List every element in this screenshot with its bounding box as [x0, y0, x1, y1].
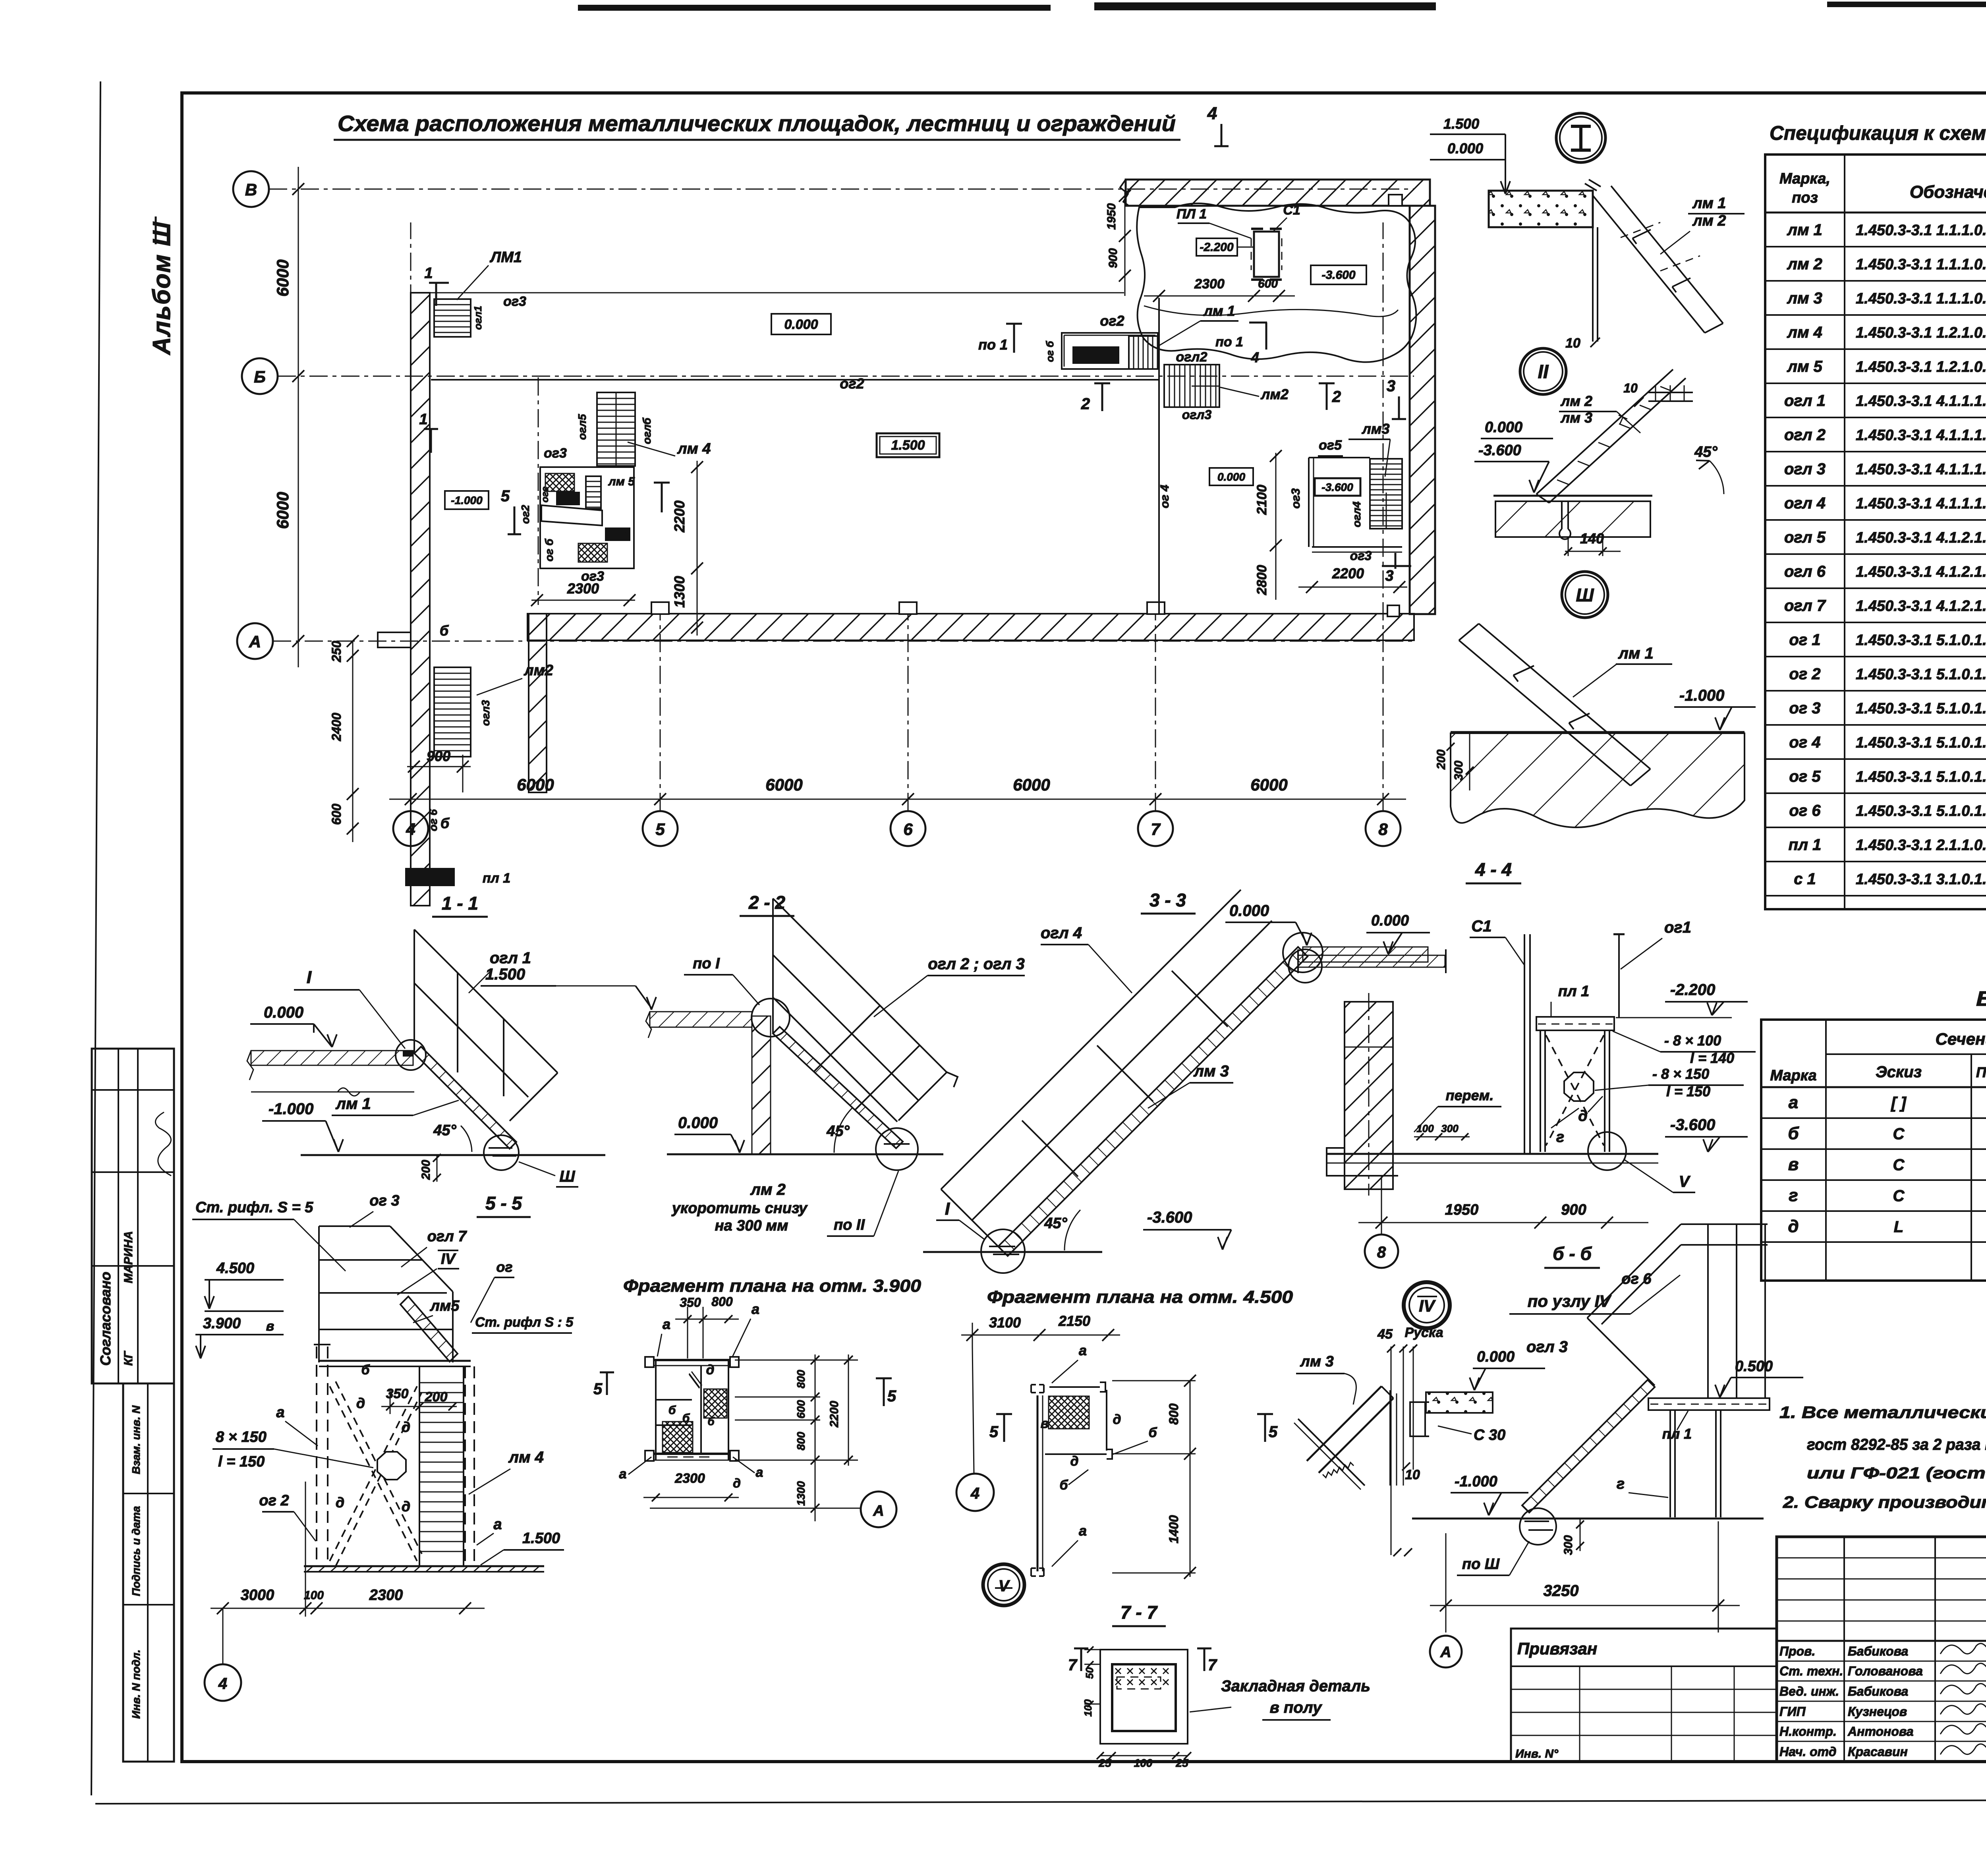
б-б axis 8 circle: [1365, 1235, 1398, 1268]
1-1 stair ЛМ1 tread band: [414, 1047, 516, 1149]
ЛМ3 detail stringers: [1307, 1386, 1381, 1461]
svg-text:350: 350: [680, 1295, 701, 1310]
svg-text:Ш: Ш: [559, 1168, 575, 1185]
left stamp upper block: [92, 1049, 174, 1383]
node IV C30 channel: [1410, 1402, 1429, 1436]
svg-text:или ГФ-021 (гост 25129-82): или ГФ-021 (гост 25129-82): [1807, 1464, 1986, 1482]
black level tag 1.500 lower: [405, 868, 455, 886]
svg-text:огл2: огл2: [1176, 350, 1207, 365]
svg-text:лм 5: лм 5: [608, 475, 635, 488]
svg-text:1.450.3-3.1 5.1.0.1.0: 1.450.3-3.1 5.1.0.1.0: [1856, 803, 1986, 819]
svg-text:по I: по I: [693, 955, 720, 972]
svg-text:0.000: 0.000: [1447, 140, 1483, 156]
svg-text:I: I: [307, 968, 312, 987]
svg-text:-1.000: -1.000: [1081, 350, 1111, 361]
svg-text:по II: по II: [834, 1217, 865, 1233]
svg-text:д: д: [356, 1395, 365, 1411]
node II anchor bolt: [1561, 501, 1563, 529]
fragment1 plan outline: [655, 1360, 657, 1460]
svg-text:-3.600: -3.600: [1670, 1116, 1715, 1134]
svg-text:1.450.3-3.1 1.1.1.0.0 - 07: 1.450.3-3.1 1.1.1.0.0 - 07: [1856, 256, 1986, 273]
left wall axis 4: [411, 293, 430, 906]
svg-text:б - б: б - б: [1553, 1243, 1592, 1264]
svg-text:1.450.3-3.1 3.1.0.1.0-01: 1.450.3-3.1 3.1.0.1.0-01: [1856, 871, 1986, 888]
fragment1 right dim 800 600 800: [815, 1354, 816, 1521]
cloud inner wave: [1144, 306, 1398, 317]
svg-text:огл1: огл1: [472, 306, 484, 330]
svg-text:4.500: 4.500: [216, 1260, 254, 1277]
ЛМ3 detail cross bar: [1298, 1419, 1365, 1486]
б-б dim line 1950 900: [1358, 1222, 1648, 1223]
5-5 dim line 3000 100 2300: [211, 1608, 485, 1609]
svg-text:лм 1: лм 1: [1692, 195, 1726, 212]
svg-text:а: а: [619, 1466, 627, 1482]
svg-text:-3.600: -3.600: [1321, 481, 1353, 493]
stairwell room outline: [540, 467, 634, 568]
б-б ОГ1 post: [1618, 933, 1620, 1018]
wall column axis 6: [899, 602, 917, 614]
svg-text:1300: 1300: [795, 1481, 807, 1506]
svg-text:1 - 1: 1 - 1: [442, 893, 478, 914]
node II top platform bit: [1648, 392, 1693, 393]
svg-text:Фрагмент плана на отм. 3.900: Фрагмент плана на отм. 3.900: [623, 1276, 922, 1296]
stair ОГЛ2 plan: [1164, 365, 1219, 407]
svg-text:лм3: лм3: [1361, 421, 1389, 437]
svg-text:50: 50: [1084, 1667, 1095, 1679]
svg-text:ог 4: ог 4: [1789, 734, 1820, 751]
title block привязан part: [1511, 1629, 1777, 1762]
svg-text:ог 6: ог 6: [427, 809, 439, 831]
svg-text:огл 4: огл 4: [1784, 495, 1826, 512]
svg-text:Эскиз: Эскиз: [1876, 1063, 1922, 1081]
svg-text:Инв. N подл.: Инв. N подл.: [130, 1650, 142, 1719]
node II treads: [1557, 480, 1569, 485]
svg-text:1. Все металлические констру: 1. Все металлические конструкции окрасит…: [1779, 1403, 1986, 1422]
svg-text:-1.000: -1.000: [1455, 1473, 1497, 1490]
svg-text:8: 8: [1377, 1244, 1386, 1261]
svg-text:II: II: [1538, 361, 1549, 383]
5-5 ladder ЛМ4: [419, 1366, 420, 1566]
svg-text:Привязан: Привязан: [1517, 1639, 1597, 1658]
svg-text:100: 100: [1134, 1757, 1153, 1769]
wall column axis 5: [651, 602, 669, 614]
svg-text:Марка,: Марка,: [1779, 170, 1830, 187]
svg-text:600: 600: [329, 804, 344, 825]
left stamp signature: [155, 1112, 171, 1176]
5-5 X brace 1: [330, 1386, 417, 1561]
svg-text:4: 4: [1207, 104, 1217, 123]
svg-text:лм 1: лм 1: [1618, 645, 1654, 662]
svg-text:огл 3: огл 3: [1526, 1338, 1568, 1356]
б-б slab strip left: [1298, 955, 1445, 967]
svg-text:ог б: ог б: [543, 539, 555, 562]
node V circle symbol: [983, 1564, 1024, 1606]
svg-text:1.450.3-3.1 5.1.0.1.0 - 11: 1.450.3-3.1 5.1.0.1.0 - 11: [1856, 734, 1986, 751]
svg-text:г: г: [1617, 1476, 1625, 1492]
wall corner piece axis А/4 plan: [378, 632, 411, 647]
node II weld ticks: [1619, 415, 1627, 424]
svg-text:1.500: 1.500: [522, 1530, 560, 1547]
axis circle 6: [891, 811, 925, 846]
svg-text:2300: 2300: [567, 580, 599, 597]
framed level 1.500 main floor: [877, 433, 939, 457]
svg-text:-3.600: -3.600: [1321, 269, 1355, 282]
svg-text:Н.контр.: Н.контр.: [1779, 1724, 1837, 1739]
node I channel symbols: [1632, 230, 1651, 244]
svg-text:лм2: лм2: [1260, 386, 1289, 402]
svg-text:6000: 6000: [1250, 775, 1287, 794]
axis circle В: [233, 171, 269, 207]
axis line 4: [410, 222, 411, 811]
node IV left slab: [1426, 1392, 1493, 1413]
svg-text:1.450.3-3.1 5.1.0.1.0 - 08: 1.450.3-3.1 5.1.0.1.0 - 08: [1856, 666, 1986, 683]
svg-text:Закладная деталь: Закладная деталь: [1221, 1677, 1370, 1695]
stair ЛМ4 plan: [597, 392, 635, 466]
axis line А: [273, 641, 1412, 642]
svg-text:8 × 150: 8 × 150: [216, 1429, 267, 1445]
svg-text:25: 25: [1175, 1757, 1188, 1769]
svg-text:Нач. отд: Нач. отд: [1779, 1745, 1836, 1759]
svg-text:1.450.3-3.1 1.1.1.0.0 - 16: 1.450.3-3.1 1.1.1.0.0 - 16: [1856, 290, 1986, 307]
interior wall below slab: [529, 614, 547, 792]
scan smudge top 1: [578, 5, 1051, 11]
node I stair stringers: [1593, 195, 1705, 333]
svg-text:С1: С1: [1471, 918, 1491, 935]
svg-text:8: 8: [1378, 820, 1388, 839]
svg-text:лм 3: лм 3: [1787, 290, 1822, 307]
node IV railing corner: [1681, 1223, 1768, 1225]
fragment1 bottom dim 2300: [643, 1497, 739, 1498]
б-б X brace: [1546, 1035, 1604, 1146]
svg-text:4: 4: [218, 1675, 227, 1692]
svg-text:лм 4: лм 4: [1787, 324, 1822, 341]
svg-text:ог 6: ог 6: [1621, 1271, 1652, 1287]
svg-text:С1: С1: [1283, 203, 1300, 218]
svg-text:а: а: [1079, 1522, 1087, 1539]
stair ЛМ3 plan: [1370, 459, 1402, 529]
svg-text:ог3: ог3: [544, 446, 567, 461]
svg-text:гост 8292-85 за 2 раза по г: гост 8292-85 за 2 раза по грунтовке ГФ-0…: [1807, 1436, 1986, 1453]
framed level 0.000 main floor: [771, 314, 831, 334]
svg-text:3.900: 3.900: [203, 1315, 241, 1332]
svg-text:300: 300: [1562, 1535, 1575, 1555]
svg-text:ог3: ог3: [1350, 549, 1372, 563]
svg-text:5 - 5: 5 - 5: [485, 1193, 522, 1213]
svg-text:1950: 1950: [1105, 203, 1118, 230]
title block personnel rows: [1777, 1661, 1986, 1662]
node IV ground line: [1412, 1518, 1764, 1520]
svg-text:б: б: [1148, 1425, 1157, 1440]
axis line Б: [278, 376, 1414, 377]
svg-text:1950: 1950: [1445, 1202, 1479, 1218]
svg-text:Ст. рифл. S = 5: Ст. рифл. S = 5: [195, 1199, 313, 1216]
node III ground surface: [1451, 731, 1745, 733]
svg-text:- 8 × 100: - 8 × 100: [1664, 1032, 1721, 1049]
svg-text:1.500: 1.500: [607, 529, 629, 539]
svg-text:3 - 3: 3 - 3: [1149, 890, 1186, 910]
svg-text:0.000: 0.000: [1217, 471, 1245, 483]
node I circle: [1556, 113, 1605, 162]
svg-text:б: б: [707, 1415, 715, 1428]
svg-text:пл 1: пл 1: [1558, 983, 1590, 1000]
svg-text:оглб: оглб: [641, 417, 653, 444]
svg-text:-3.600: -3.600: [1147, 1209, 1192, 1226]
svg-text:3: 3: [1385, 568, 1393, 584]
svg-text:6000: 6000: [765, 775, 802, 794]
axis line В: [269, 189, 1414, 190]
node IV circle: [1404, 1282, 1450, 1328]
svg-text:45°: 45°: [1694, 444, 1717, 460]
svg-text:укоротить снизу: укоротить снизу: [671, 1200, 808, 1217]
svg-text:600: 600: [1258, 277, 1278, 290]
fragment2 crosshatch: [1049, 1396, 1089, 1429]
wall notch square: [1389, 195, 1402, 206]
dimension 2100 2800 rotated: [1275, 453, 1277, 600]
svg-text:1.500: 1.500: [1443, 116, 1479, 132]
ladder in platform: [1129, 336, 1158, 369]
fragment1 dim 2200: [848, 1354, 849, 1466]
svg-text:1: 1: [424, 265, 433, 282]
svg-text:огл 2: огл 2: [1784, 426, 1826, 444]
svg-text:Б: Б: [254, 367, 266, 386]
svg-text:10: 10: [1405, 1467, 1420, 1482]
svg-text:Фрагмент плана на отм. 4.50: Фрагмент плана на отм. 4.500: [987, 1287, 1293, 1307]
node I weld mark: [1585, 184, 1597, 191]
upper floor edge line: [430, 292, 1124, 294]
5-5 gusset: [377, 1452, 406, 1480]
3-3 bottom node circle: [981, 1229, 1025, 1273]
node II circle: [1520, 348, 1566, 394]
svg-text:огл4: огл4: [1350, 501, 1363, 527]
node I slab: [1489, 191, 1593, 227]
svg-text:Марка: Марка: [1770, 1067, 1816, 1084]
svg-text:900: 900: [1561, 1202, 1586, 1218]
left stamp lower block: [123, 1383, 174, 1762]
svg-text:4: 4: [970, 1485, 979, 1502]
svg-text:поз: поз: [1792, 189, 1818, 206]
1-1 ground line: [301, 1154, 605, 1156]
svg-text:лм 4: лм 4: [508, 1449, 544, 1466]
svg-text:800: 800: [795, 1370, 807, 1388]
svg-text:лм5: лм5: [430, 1298, 460, 1314]
node III soil hatch: [1451, 733, 1745, 827]
axis line 6: [908, 614, 909, 811]
svg-text:б: б: [682, 1412, 690, 1425]
svg-text:В: В: [245, 180, 257, 199]
б-б node IV ref circle: [1289, 949, 1322, 983]
svg-text:5: 5: [593, 1380, 603, 1398]
svg-text:А: А: [1440, 1644, 1451, 1661]
dimension 1950 900 rotated: [1124, 191, 1126, 296]
svg-text:Красавин: Красавин: [1848, 1745, 1908, 1759]
svg-text:0.000: 0.000: [1229, 902, 1269, 920]
svg-text:в: в: [1788, 1155, 1799, 1174]
svg-text:КГ: КГ: [122, 1350, 135, 1366]
svg-text:ог1: ог1: [1664, 919, 1691, 936]
svg-text:900: 900: [1107, 248, 1120, 268]
svg-text:1.450.3-3.1 4.1.1.1.0 - 01: 1.450.3-3.1 4.1.1.1.0 - 01: [1856, 461, 1986, 478]
fragment2 second vertical: [1106, 1390, 1107, 1451]
node IV bottom node circle: [1520, 1508, 1556, 1545]
svg-text:ог 6: ог 6: [1789, 802, 1821, 819]
svg-text:100: 100: [1416, 1123, 1434, 1134]
svg-text:ог 4: ог 4: [1158, 485, 1171, 508]
svg-text:25: 25: [1098, 1757, 1111, 1769]
svg-text:ог3: ог3: [503, 294, 526, 309]
fragment2 vertical member: [1037, 1395, 1039, 1571]
svg-text:ог 2: ог 2: [259, 1492, 289, 1509]
svg-text:7: 7: [1208, 1656, 1217, 1674]
svg-text:1.500: 1.500: [485, 966, 525, 983]
crosshatch patch upper: [545, 473, 574, 491]
svg-text:6000: 6000: [273, 259, 292, 296]
svg-text:2100: 2100: [1254, 485, 1269, 515]
svg-text:0.000: 0.000: [1477, 1349, 1515, 1365]
axis circle Б: [242, 358, 278, 394]
3-3 ground line: [923, 1251, 1102, 1253]
black level tag 1.500 lower room: [605, 527, 630, 541]
svg-text:лм 2: лм 2: [1560, 393, 1592, 409]
svg-text:б: б: [668, 1404, 676, 1417]
svg-text:Ведомость элементов: Ведомость элементов: [1976, 987, 1986, 1010]
svg-text:0.000: 0.000: [1371, 912, 1409, 929]
black level tag -1.000: [1072, 346, 1119, 364]
svg-text:огл3: огл3: [1182, 408, 1212, 422]
svg-text:А: А: [249, 632, 261, 651]
svg-text:с 1: с 1: [1794, 870, 1816, 888]
svg-text:д: д: [733, 1476, 741, 1490]
plan dimension 900 bottom left: [407, 766, 471, 767]
svg-text:г: г: [1789, 1186, 1798, 1205]
svg-text:д: д: [1788, 1217, 1799, 1236]
svg-text:лм 2: лм 2: [750, 1181, 786, 1198]
stair ЛМ2 plan: [434, 667, 471, 757]
svg-text:300: 300: [1441, 1123, 1459, 1134]
svg-text:А: А: [873, 1503, 884, 1519]
svg-text:ог5: ог5: [1319, 438, 1342, 453]
wall notch right room: [1387, 605, 1399, 616]
svg-text:огл 6: огл 6: [1784, 563, 1826, 580]
railing line ог2: [431, 379, 1159, 381]
plan left small dimension chain 250 2400 600: [352, 641, 354, 842]
svg-text:Ш: Ш: [1576, 585, 1594, 605]
svg-text:0.000: 0.000: [678, 1114, 718, 1132]
б-б floor line: [1327, 1153, 1658, 1155]
svg-text:0.000: 0.000: [1485, 419, 1522, 436]
framed level 0.000 right: [1209, 468, 1253, 485]
plan vertical dimension line 6000x2: [298, 167, 299, 667]
stremyanka С1 symbol: [1254, 232, 1279, 277]
svg-text:1.500: 1.500: [557, 494, 579, 504]
svg-text:1.450.3-3.1 4.1.1.1.0 - 07: 1.450.3-3.1 4.1.1.1.0 - 07: [1856, 427, 1986, 444]
svg-text:2300: 2300: [674, 1471, 705, 1486]
2-2 ground line: [667, 1153, 943, 1155]
scan smudge top 3: [1827, 2, 1986, 7]
svg-text:2300: 2300: [369, 1587, 403, 1604]
paper bottom edge: [95, 1799, 1986, 1804]
svg-text:2800: 2800: [1254, 565, 1269, 595]
2-2 stair ЛМ2 tread band: [773, 1027, 903, 1148]
svg-text:б: б: [440, 622, 449, 639]
cloud break line top-right: [1137, 203, 1416, 362]
node III stair ЛМ1: [1459, 640, 1631, 786]
svg-text:1.450.3-3.1 1.1.1.0.0- 04: 1.450.3-3.1 1.1.1.0.0- 04: [1856, 222, 1986, 239]
svg-text:ГИП: ГИП: [1779, 1704, 1806, 1719]
svg-text:перем.: перем.: [1446, 1087, 1494, 1103]
railing line ог4 vertical: [1158, 298, 1160, 614]
svg-text:огл5: огл5: [576, 414, 588, 440]
svg-text:огл 1: огл 1: [1784, 392, 1826, 410]
axis circle А: [237, 623, 273, 659]
svg-text:по 1: по 1: [1215, 334, 1243, 350]
svg-text:140: 140: [1580, 530, 1604, 547]
2-2 floor slab: [650, 1012, 752, 1027]
2-2 bottom node circle: [876, 1128, 918, 1170]
node IV circle А: [1430, 1636, 1462, 1667]
7-7 channel dashed: [1117, 1677, 1161, 1689]
3-3 stair band ЛМ3: [998, 947, 1308, 1256]
svg-text:0.000: 0.000: [264, 1004, 303, 1021]
svg-text:1.500: 1.500: [891, 438, 925, 453]
svg-text:Бабикова: Бабикова: [1848, 1644, 1908, 1658]
svg-text:огл 7: огл 7: [427, 1228, 468, 1245]
node II ground slab: [1493, 495, 1652, 497]
svg-text:-2.200: -2.200: [1670, 981, 1715, 999]
svg-text:ПЛ 1: ПЛ 1: [1177, 207, 1207, 222]
б-б wall ledge: [1327, 1148, 1398, 1176]
svg-text:ог 5: ог 5: [1789, 768, 1821, 785]
svg-text:ог2: ог2: [1100, 313, 1124, 329]
axis circle 5: [643, 811, 678, 846]
б-б С1 post: [1524, 934, 1525, 1154]
svg-text:6: 6: [903, 820, 913, 839]
platform wedge: [541, 505, 602, 526]
svg-text:5: 5: [655, 820, 665, 839]
svg-text:огл3: огл3: [479, 700, 492, 726]
svg-text:5: 5: [1269, 1423, 1278, 1441]
right wall axis 8: [1410, 206, 1435, 614]
svg-text:800: 800: [1167, 1403, 1181, 1425]
svg-text:1.500: 1.500: [415, 871, 444, 884]
bottom wall axis А: [527, 614, 1414, 640]
7-7 plate plan outer: [1100, 1650, 1188, 1744]
svg-text:Инв. N°: Инв. N°: [1515, 1747, 1559, 1760]
5-5 axis circle 4: [205, 1664, 241, 1701]
svg-text:I: I: [945, 1199, 950, 1219]
svg-text:б: б: [440, 815, 450, 831]
svg-text:лм 1: лм 1: [1787, 221, 1822, 239]
fragment2 right dims 800 1400: [1190, 1381, 1191, 1577]
svg-text:3100: 3100: [989, 1314, 1021, 1331]
section T mark right: [661, 483, 663, 512]
svg-text:5: 5: [887, 1387, 896, 1405]
axis circle 8: [1366, 811, 1401, 846]
svg-text:лм2: лм2: [524, 662, 553, 679]
svg-text:IV: IV: [441, 1251, 456, 1267]
svg-text:[ ]: [ ]: [1890, 1094, 1907, 1112]
svg-text:0.500: 0.500: [1735, 1358, 1773, 1375]
svg-text:пл 1: пл 1: [483, 871, 510, 886]
svg-text:3000: 3000: [241, 1587, 274, 1604]
svg-text:1.450.3-3.1 5.1.0.1.0 - 02: 1.450.3-3.1 5.1.0.1.0 - 02: [1856, 769, 1986, 785]
б-б left wall: [1345, 1002, 1393, 1189]
svg-text:д: д: [1070, 1454, 1078, 1469]
svg-text:С 30: С 30: [1474, 1427, 1505, 1443]
plan horizontal dimension line 6000x4: [389, 799, 1406, 800]
5-5 stair ЛМ5 band: [400, 1296, 458, 1362]
svg-text:1.450.3-3.1 4.1.1.1.0 - 06: 1.450.3-3.1 4.1.1.1.0 - 06: [1856, 393, 1986, 410]
svg-text:б: б: [1059, 1478, 1068, 1493]
